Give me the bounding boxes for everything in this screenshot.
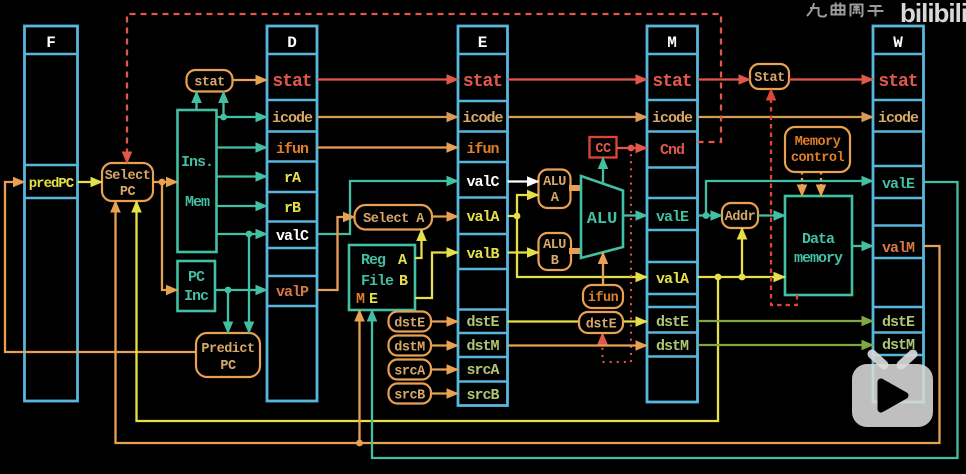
wire: M.dstE to W.dstE [698, 320, 874, 322]
wire: PC increment valP to D.valP [215, 289, 267, 291]
wire: ifun to ALU [602, 253, 604, 286]
svg-text:Inc: Inc [184, 288, 209, 305]
wire: W.valM feedback to Select PC [116, 201, 940, 443]
svg-text:memory: memory [794, 250, 843, 267]
wire: E.valB to ALU B [508, 251, 539, 253]
wire: imem ifun to D.ifun [217, 146, 268, 148]
wire: E.valC to ALU A [508, 180, 539, 182]
junction on Cnd wire [628, 145, 635, 152]
svg-text:B: B [399, 273, 408, 290]
svg-text:M: M [356, 291, 365, 308]
wire: data memory out to W.valM [852, 245, 873, 247]
svg-text:M: M [667, 34, 677, 52]
wire: M.icode to W.icode [698, 116, 874, 118]
junction on valA output [514, 213, 521, 220]
wire: M.valE to W.valE [706, 181, 873, 216]
wire: M.dstM to W.dstM [698, 344, 874, 346]
pipeline register F [25, 26, 78, 401]
svg-text:predPC: predPC [29, 176, 75, 192]
svg-text:icode: icode [652, 110, 693, 127]
svg-text:Select A: Select A [363, 212, 425, 227]
wire: E.dstM to M.dstM [508, 344, 648, 346]
pipeline register M [647, 26, 698, 402]
svg-text:valB: valB [466, 246, 499, 263]
condition code register CC [590, 137, 617, 158]
wire: D.ifun to E.ifun [317, 146, 458, 148]
svg-text:ifun: ifun [466, 141, 499, 158]
wire: E.valA to ALU A [508, 195, 539, 216]
svg-text:E: E [369, 291, 378, 308]
svg-text:valE: valE [656, 209, 689, 226]
junction on M.valE output [703, 212, 710, 219]
ALU trapezoid [581, 176, 623, 258]
svg-text:File: File [361, 273, 394, 290]
wire: F.predPC to Select PC [78, 181, 103, 183]
pipeline register W [873, 26, 924, 402]
svg-text:A: A [398, 252, 407, 269]
svg-text:stat: stat [194, 76, 224, 91]
svg-text:icode: icode [462, 110, 503, 127]
svg-text:dstE: dstE [466, 314, 499, 331]
Select PC block [102, 163, 153, 201]
svg-text:valA: valA [656, 271, 689, 288]
dstM input box (decode) [389, 336, 432, 356]
wire: register file port A to Select A [415, 230, 422, 259]
wire: register file port B to E.valB [415, 253, 458, 299]
ALU B input box [539, 233, 572, 270]
svg-text:valP: valP [276, 284, 309, 301]
junction M.valA to feedback [715, 274, 722, 281]
svg-text:stat: stat [878, 72, 917, 92]
svg-text:Stat: Stat [754, 71, 784, 86]
Memory control block [785, 127, 850, 172]
wire: M.valA to data memory data in [698, 276, 786, 278]
dstE select box (execute/memory) [579, 312, 623, 333]
svg-text:valC: valC [466, 174, 499, 191]
wire: D.stat to E.stat [317, 78, 458, 80]
watermark chinese characters [807, 3, 884, 17]
svg-text:Ins.: Ins. [181, 154, 213, 171]
wire: icode to stat box [222, 92, 224, 118]
svg-text:rA: rA [284, 170, 301, 187]
wire: valP branch to Predict PC [227, 290, 229, 333]
wire: M.Cnd dashed to top feedback [127, 14, 721, 163]
wire: D.icode to E.icode [317, 116, 458, 118]
svg-text:valM: valM [882, 240, 915, 257]
svg-text:stat: stat [463, 72, 502, 92]
Select A block [355, 205, 433, 230]
svg-text:valE: valE [882, 176, 915, 193]
wire: imem icode to D.icode [217, 116, 268, 118]
svg-text:Data: Data [802, 231, 835, 248]
wire: M.valA branch to Addr [741, 228, 743, 277]
wire: D.valP to Select A [317, 217, 355, 290]
svg-text:icode: icode [878, 110, 919, 127]
svg-text:Select: Select [105, 169, 151, 184]
svg-text:ifun: ifun [588, 291, 619, 306]
svg-text:Addr: Addr [725, 210, 756, 225]
svg-text:stat: stat [652, 72, 691, 92]
wire: Select A to E.valA [432, 215, 458, 217]
junction on Select PC output [159, 179, 166, 186]
wire: ALU to CC [602, 158, 604, 184]
svg-text:dstM: dstM [394, 341, 425, 356]
svg-text:B: B [551, 254, 559, 269]
ALU A input box [539, 170, 571, 209]
svg-text:dstM: dstM [466, 338, 499, 355]
svg-text:E: E [478, 34, 488, 52]
srcB input box (decode) [389, 384, 432, 404]
wire: dstM box to E.dstM [431, 344, 458, 346]
svg-text:ifun: ifun [276, 141, 309, 158]
instruction memory block [178, 110, 217, 252]
bilibili tv logo [852, 354, 933, 427]
svg-text:dstM: dstM [656, 338, 689, 355]
wire: imem rB to D.rB [217, 205, 268, 207]
Addr block [722, 203, 758, 228]
wire: memory control write dashed [820, 172, 822, 196]
wire: E.valA to M.valA [517, 216, 647, 277]
junction on icode wire [220, 114, 227, 121]
PC increment block [178, 261, 216, 311]
wire: dstE box to E.dstE [431, 320, 458, 322]
svg-text:PC: PC [188, 269, 205, 286]
wire: e_Cnd dotted feedback to dstE select [603, 148, 632, 362]
wire: ALU output to M.valE [623, 214, 647, 216]
wire: CC to M.Cnd [617, 147, 648, 149]
wire: Stat box to W.stat [789, 78, 873, 80]
svg-text:srcA: srcA [466, 362, 499, 379]
svg-text:Memory: Memory [795, 135, 841, 150]
Stat merge box (memory) [750, 64, 789, 89]
ifun box (execute) [583, 285, 623, 308]
Predict PC block [196, 333, 260, 377]
wire: E.stat to M.stat [508, 78, 648, 80]
dstE input box (decode) [389, 312, 432, 332]
wire: W.valE feedback to register file port E [372, 182, 958, 458]
svg-text:Predict: Predict [201, 342, 254, 357]
pipeline register D [267, 26, 317, 401]
svg-text:bilibili: bilibili [900, 0, 966, 28]
wire: Predict PC to F.predPC feedback [5, 182, 196, 352]
wire: E.dstE to M.dstE through dstE select [508, 320, 648, 322]
junction on valC wire [246, 231, 253, 238]
svg-text:icode: icode [272, 110, 313, 127]
register file block [349, 245, 415, 310]
svg-text:srcB: srcB [466, 387, 499, 404]
svg-text:stat: stat [272, 72, 311, 92]
svg-text:rB: rB [284, 200, 301, 217]
svg-text:srcB: srcB [394, 389, 425, 404]
wire: srcB box to E.srcB [431, 392, 458, 394]
wire: M.valE to Addr [698, 214, 723, 216]
ALU A to ALU connector [569, 185, 582, 191]
wire: imem error to stat box [195, 92, 197, 111]
svg-text:dstE: dstE [656, 314, 689, 331]
junction on valP wire [225, 287, 232, 294]
svg-text:CC: CC [595, 142, 611, 157]
wire: imem valC to D.valC [217, 233, 268, 235]
svg-text:D: D [287, 34, 297, 52]
wire: valC branch to Predict PC [248, 234, 250, 333]
wire: D.valC to E.valC [317, 181, 458, 234]
wire: memory control read dashed [801, 172, 803, 196]
wire: W.valM to register file port M [358, 310, 360, 443]
wire: E.icode to M.icode [508, 116, 648, 118]
svg-text:valA: valA [466, 209, 499, 226]
wire: Select PC output to PC increment [162, 182, 178, 290]
svg-text:Mem: Mem [185, 194, 210, 211]
svg-text:W: W [893, 34, 903, 52]
svg-text:Cnd: Cnd [660, 142, 684, 159]
svg-text:valC: valC [276, 228, 309, 245]
junction M.valA to Addr [739, 274, 746, 281]
wire: Addr to data memory [758, 214, 785, 216]
data memory block [785, 196, 852, 295]
svg-text:ALU: ALU [587, 210, 618, 229]
stat merge box (fetch) [187, 70, 233, 92]
svg-text:ALU: ALU [543, 238, 566, 253]
ALU B to ALU connector [569, 248, 582, 254]
svg-text:srcA: srcA [394, 365, 426, 380]
svg-text:ALU: ALU [543, 175, 566, 190]
svg-text:dstE: dstE [882, 314, 915, 331]
svg-text:dstE: dstE [586, 318, 617, 333]
svg-text:F: F [46, 34, 56, 52]
svg-text:control: control [791, 151, 845, 166]
svg-text:dstE: dstE [394, 317, 425, 332]
wire: dmem error dashed to Stat [771, 89, 797, 305]
wire: stat box to D.stat [233, 79, 268, 81]
wire: M.stat to Stat box [698, 78, 751, 80]
pipeline register E [458, 26, 508, 406]
junction W.valM to register file M [356, 440, 363, 447]
svg-text:Reg: Reg [361, 252, 386, 269]
wire: M.valA feedback to Select PC [137, 201, 719, 421]
svg-text:PC: PC [120, 185, 136, 200]
wire: srcA box to E.srcA [431, 368, 458, 370]
wire: imem rA to D.rA [217, 175, 268, 177]
srcA input box (decode) [389, 360, 432, 380]
wire: Select PC to instruction memory [153, 181, 178, 183]
svg-text:PC: PC [220, 359, 236, 374]
